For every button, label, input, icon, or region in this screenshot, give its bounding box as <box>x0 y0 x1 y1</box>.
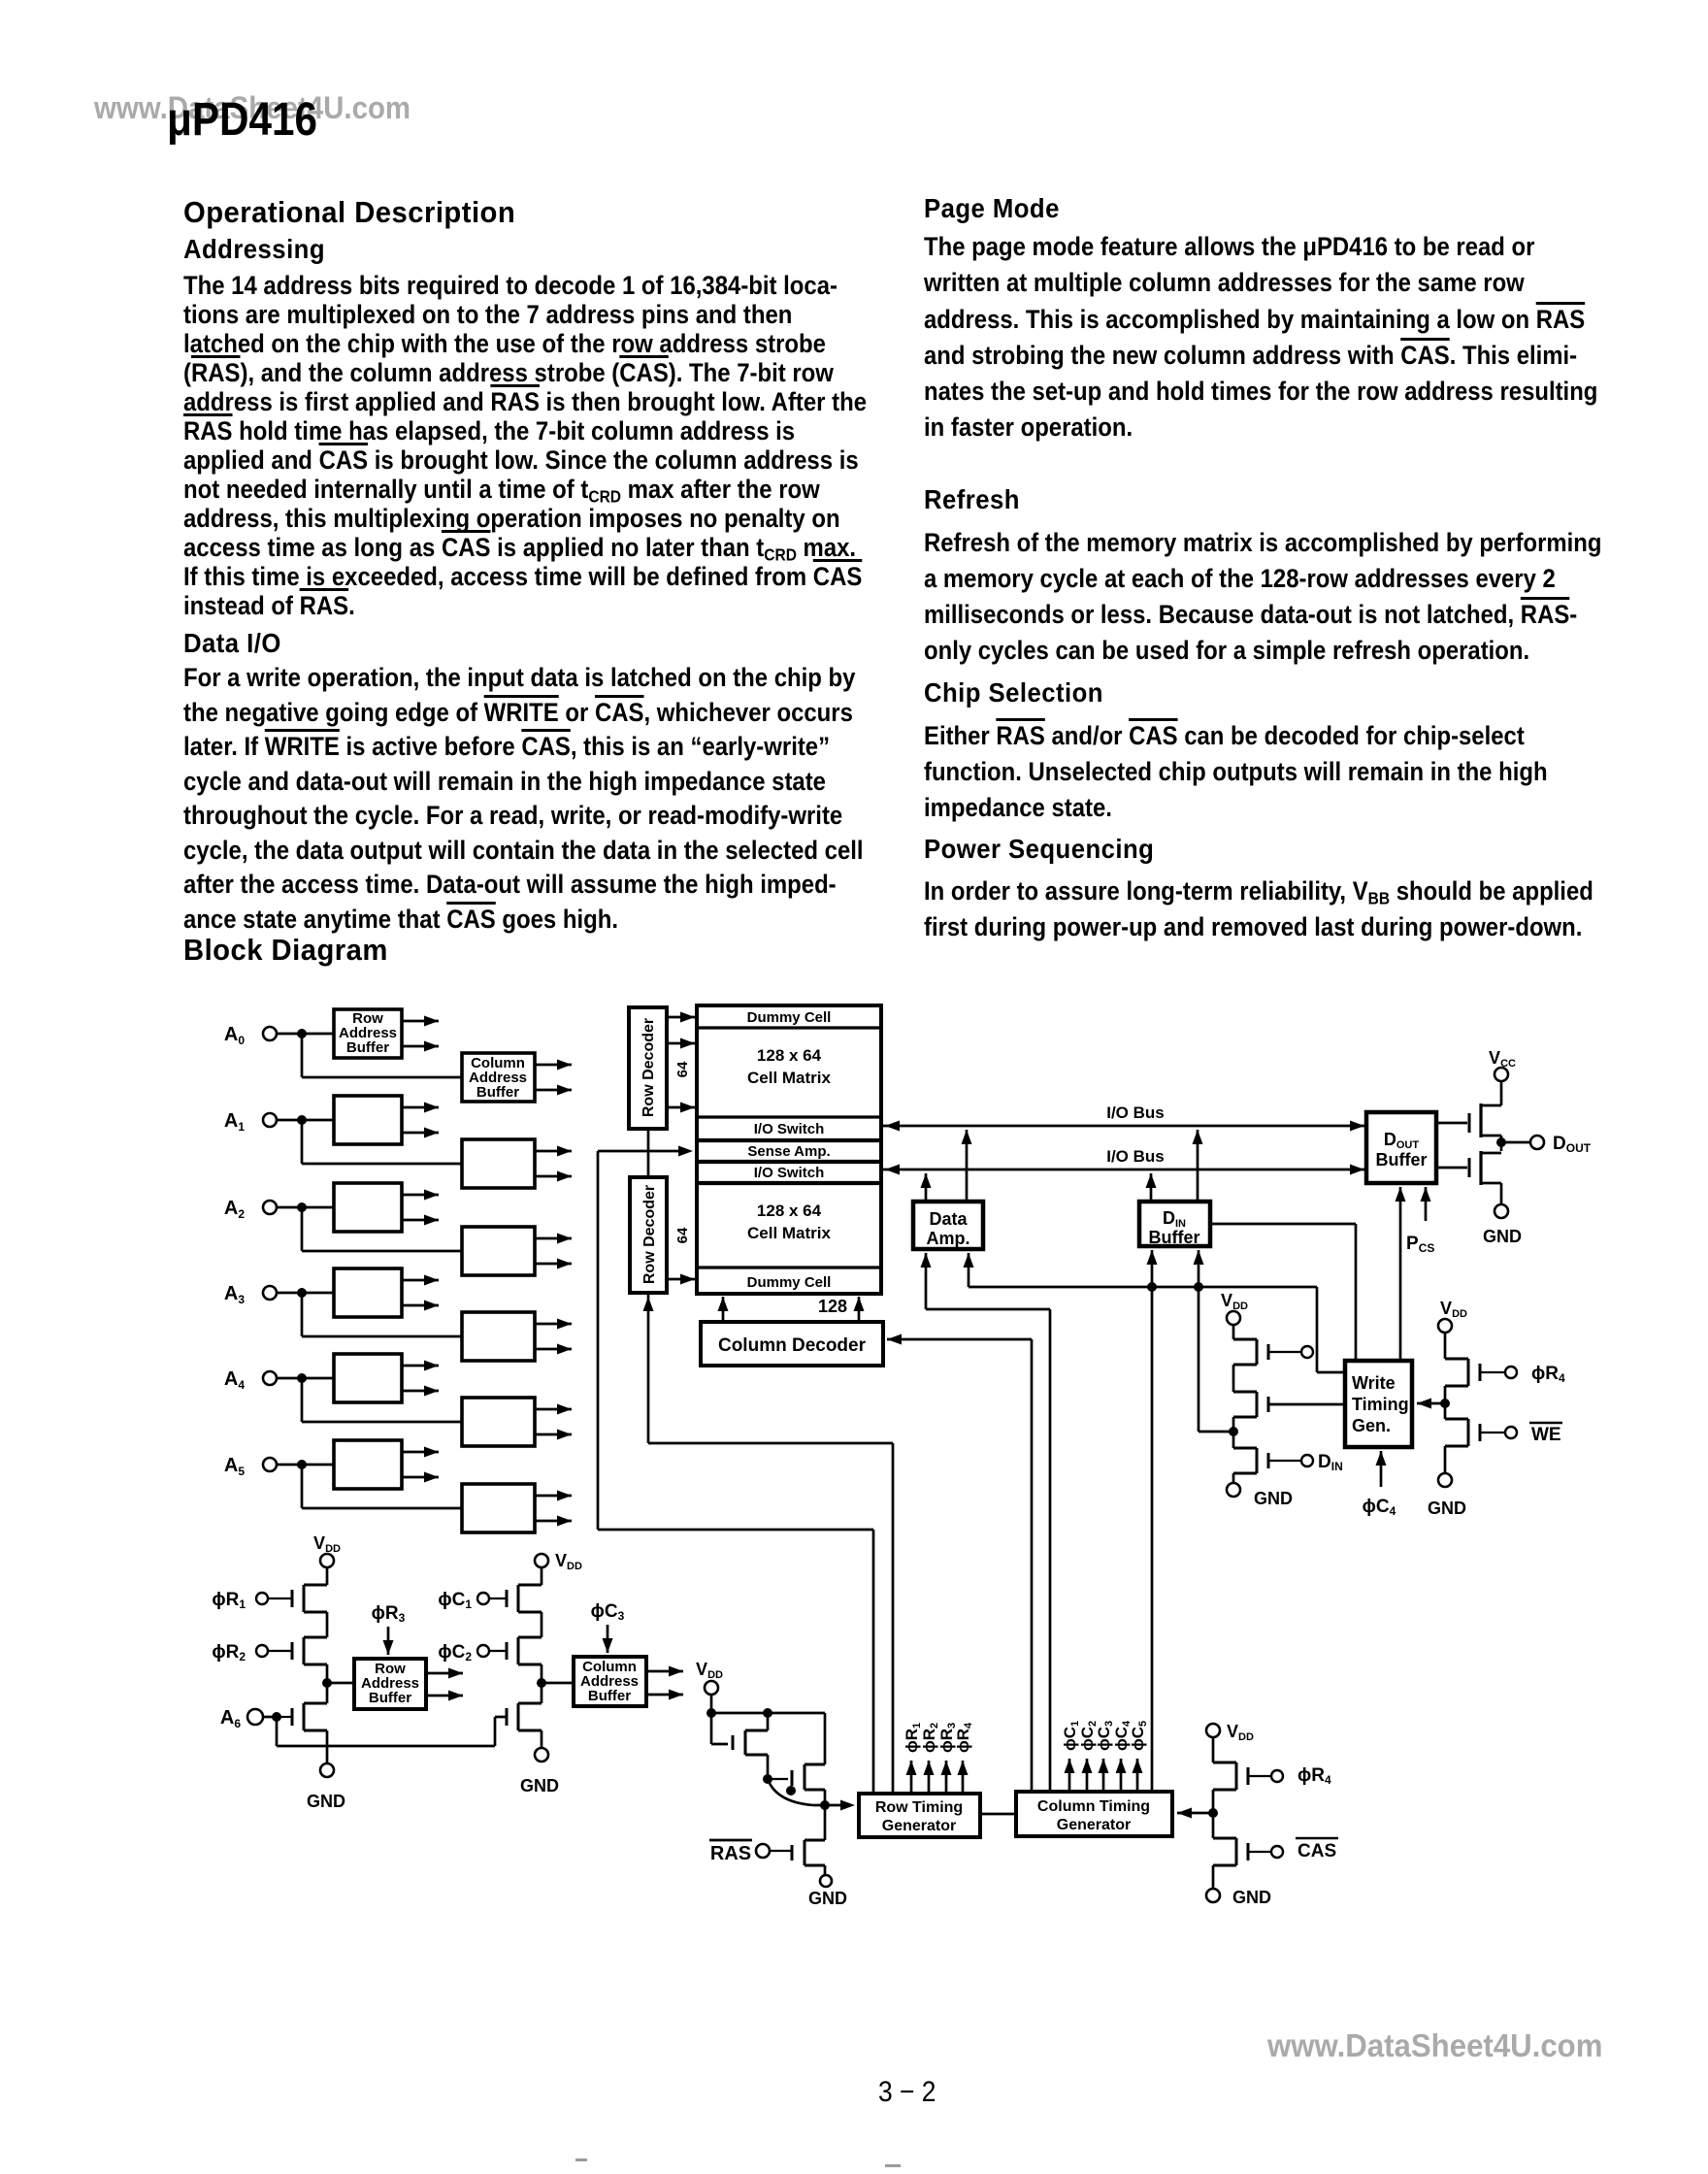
svg-text:ϕC1: ϕC1 <box>438 1590 472 1611</box>
svg-text:GND: GND <box>1232 1888 1271 1907</box>
svg-text:VDD: VDD <box>696 1660 723 1681</box>
svg-text:VDD: VDD <box>313 1533 341 1555</box>
svg-text:DIN: DIN <box>1318 1452 1343 1473</box>
svg-text:Buffer: Buffer <box>1149 1228 1200 1247</box>
svg-text:ϕC3: ϕC3 <box>591 1601 625 1623</box>
svg-text:Generator: Generator <box>1057 1817 1131 1833</box>
svg-text:Row Decoder: Row Decoder <box>641 1185 658 1284</box>
svg-text:VDD: VDD <box>1221 1291 1248 1312</box>
svg-text:128 x 64: 128 x 64 <box>757 1202 822 1220</box>
svg-text:GND: GND <box>307 1792 345 1811</box>
svg-text:VCC: VCC <box>1489 1048 1516 1070</box>
svg-text:I/O Bus: I/O Bus <box>1106 1103 1165 1122</box>
svg-text:Cell Matrix: Cell Matrix <box>747 1069 832 1087</box>
svg-text:I/O Switch: I/O Switch <box>754 1121 825 1137</box>
svg-text:WE: WE <box>1531 1425 1561 1445</box>
svg-text:128 x 64: 128 x 64 <box>757 1046 822 1065</box>
svg-text:Dummy Cell: Dummy Cell <box>747 1009 832 1026</box>
svg-text:GND: GND <box>1254 1489 1293 1508</box>
svg-text:Data: Data <box>929 1209 968 1229</box>
svg-text:RAS: RAS <box>710 1843 751 1864</box>
svg-text:Sense Amp.: Sense Amp. <box>747 1143 830 1160</box>
svg-text:CAS: CAS <box>1297 1841 1336 1861</box>
svg-text:Buffer: Buffer <box>476 1084 519 1101</box>
svg-text:Row Timing: Row Timing <box>875 1799 963 1816</box>
svg-text:128: 128 <box>818 1297 847 1316</box>
svg-text:I/O Switch: I/O Switch <box>754 1165 825 1181</box>
svg-text:ϕR4: ϕR4 <box>1531 1364 1565 1385</box>
svg-text:Row Decoder: Row Decoder <box>640 1018 657 1117</box>
svg-text:VDD: VDD <box>1227 1722 1254 1743</box>
svg-text:A3: A3 <box>224 1283 245 1306</box>
svg-text:64: 64 <box>674 1227 691 1243</box>
svg-text:A2: A2 <box>224 1198 245 1221</box>
svg-text:ϕR2: ϕR2 <box>212 1642 246 1663</box>
svg-text:Cell Matrix: Cell Matrix <box>747 1224 832 1242</box>
svg-text:VDD: VDD <box>1440 1299 1467 1320</box>
svg-text:PCS: PCS <box>1406 1234 1434 1255</box>
svg-text:Generator: Generator <box>882 1818 956 1834</box>
svg-text:Dummy Cell: Dummy Cell <box>747 1274 832 1291</box>
svg-text:A5: A5 <box>224 1455 245 1478</box>
svg-text:DOUT: DOUT <box>1553 1134 1592 1155</box>
svg-text:Gen.: Gen. <box>1352 1416 1391 1435</box>
svg-text:Amp.: Amp. <box>927 1229 970 1248</box>
svg-text:Column Decoder: Column Decoder <box>718 1335 867 1356</box>
svg-text:VDD: VDD <box>555 1551 582 1572</box>
svg-text:Buffer: Buffer <box>1376 1150 1428 1169</box>
svg-text:Timing: Timing <box>1352 1395 1409 1414</box>
svg-text:GND: GND <box>1483 1227 1522 1246</box>
svg-text:A1: A1 <box>224 1110 245 1134</box>
svg-text:GND: GND <box>1428 1499 1466 1518</box>
svg-text:ϕR1: ϕR1 <box>212 1590 246 1611</box>
svg-text:ϕR3: ϕR3 <box>372 1603 406 1625</box>
svg-text:GND: GND <box>520 1776 559 1795</box>
svg-text:Column Timing: Column Timing <box>1037 1798 1150 1815</box>
svg-text:GND: GND <box>808 1889 847 1908</box>
svg-text:ϕC4: ϕC4 <box>1363 1497 1396 1518</box>
svg-text:I/O Bus: I/O Bus <box>1106 1147 1165 1166</box>
svg-text:Write: Write <box>1352 1373 1396 1393</box>
svg-text:ϕR4: ϕR4 <box>1297 1765 1331 1787</box>
svg-text:ϕC2: ϕC2 <box>438 1642 472 1663</box>
svg-text:Buffer: Buffer <box>369 1690 411 1706</box>
svg-text:Buffer: Buffer <box>346 1039 389 1056</box>
svg-text:64: 64 <box>674 1061 691 1077</box>
svg-text:Buffer: Buffer <box>588 1688 631 1704</box>
svg-text:A0: A0 <box>224 1024 245 1047</box>
svg-text:A4: A4 <box>224 1368 245 1392</box>
svg-text:A6: A6 <box>220 1707 241 1730</box>
